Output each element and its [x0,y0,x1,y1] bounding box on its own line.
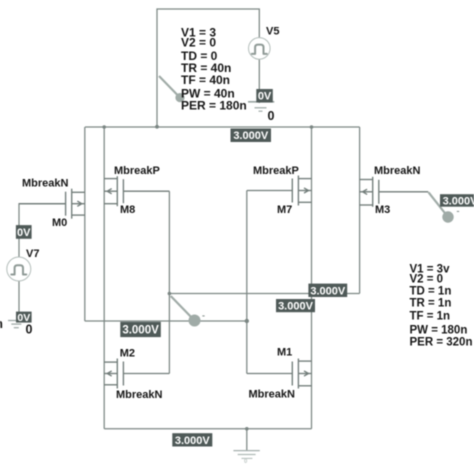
svg-text:M8: M8 [120,204,135,216]
svg-text:V7: V7 [26,248,39,260]
junction: node A / horizontal net [168,292,172,296]
svg-text:MbreakP: MbreakP [114,165,160,177]
svg-text:TF = 40n: TF = 40n [181,73,230,87]
svg-text:3.000V: 3.000V [310,285,346,297]
ground 0 at bottom rail [233,450,259,452]
ground 0 below V7 [8,321,25,328]
svg-text:MbreakP: MbreakP [253,165,299,177]
bias label 0V at V5 [256,89,273,103]
svg-text:MbreakN: MbreakN [116,389,163,401]
svg-text:M1: M1 [277,347,292,359]
svg-text:3.000V: 3.000V [175,435,211,447]
svg-text:0V: 0V [258,91,272,103]
svg-text:PW = 180n: PW = 180n [410,324,468,336]
transistor M8 (MbreakP) [104,176,169,206]
wire: bottom rail [104,428,311,430]
svg-text:MbreakN: MbreakN [249,389,296,401]
voltage source V5 (VPULSE) [248,38,270,60]
wire: horizontal net from node A to M3 source [169,293,359,295]
svg-text:3.000V: 3.000V [122,325,159,337]
svg-text:PER = 180n: PER = 180n [181,99,247,113]
svg-text:M0: M0 [52,217,67,229]
bias label 3.000V right of node [308,284,347,298]
V5 VPULSE parameter list [181,26,247,113]
svg-text:TR = 1n: TR = 1n [410,297,452,309]
bias label 0V at V7 top [16,225,32,239]
svg-text:M3: M3 [375,204,390,216]
junction: rail / M7 drain [310,125,314,129]
junction: rail / V5 loop [155,125,159,129]
probe marker on V5 net [159,76,185,102]
V7 VPULSE parameter list [410,263,473,348]
svg-text:0: 0 [244,459,248,465]
svg-text:V2 = 0: V2 = 0 [181,36,216,50]
wire: right outer column (rail to M3, M3 source down) [359,127,361,294]
wire: ground stub at bottom rail [246,429,248,451]
svg-text:-: - [457,206,460,216]
svg-text:0: 0 [268,109,275,123]
wire: left outer column (M0 drain to rail, source down) [84,127,86,321]
svg-text:M7: M7 [277,204,292,216]
transistor M0 (MbreakN access, left) [19,189,85,219]
probe marker on M3 gate net [429,192,454,222]
svg-text:n: n [0,316,3,331]
svg-text:0: 0 [26,323,33,337]
junction: bottom rail / ground [245,427,249,431]
svg-text:V5: V5 [266,26,279,38]
transistor M2 (MbreakN) [104,359,169,389]
bias label 0V at V7 bottom [16,312,32,324]
bias label 3.000V left net [120,322,161,337]
transistor M1 (MbreakN) [247,359,312,389]
junction: node B / M0 source net [245,319,249,323]
bias label 3.000V below node [276,299,315,313]
svg-text:3.000V: 3.000V [443,195,474,207]
svg-text:M2: M2 [120,348,135,360]
wire: left inner column M8/M2 [103,127,105,429]
svg-text:PER = 320n: PER = 320n [410,336,473,348]
svg-text:TD = 1n: TD = 1n [410,285,452,297]
svg-text:0V: 0V [17,227,31,239]
transistor M3 (MbreakN access, right) [360,177,429,207]
wire: right inner column M7/M1 [311,127,313,429]
wire: VDD top rail [85,126,360,128]
svg-text:3.000V: 3.000V [233,130,269,142]
svg-text:MbreakN: MbreakN [22,178,69,190]
voltage source V7 (VPULSE) [7,257,31,281]
probe marker on node A net [171,296,201,327]
svg-text:MbreakN: MbreakN [374,165,421,177]
ground 0 below V5 [248,101,274,103]
bias label 3.000V bottom rail [172,433,212,447]
bias label 3.000V top rail [231,129,272,143]
svg-text:-: - [202,311,205,321]
junction: rail / M8 drain [102,125,106,129]
wire: node A vertical (M8 gate to M2 gate) [168,191,170,373]
wire: node B vertical (M7 gate to M1 gate) [246,191,248,374]
bias label 3.000V right edge (clipped) [440,194,474,207]
wire: V5 supply loop from top rail up-over to V5 and down to ground [157,9,259,127]
svg-text:V2 = 0: V2 = 0 [410,273,444,285]
svg-text:TF = 1n: TF = 1n [410,310,451,322]
wire: horizontal net from M0 source to node B [85,320,247,322]
wire: M0 gate to V7 source [19,204,66,312]
transistor M7 (MbreakP) [247,176,312,206]
svg-text:3.000V: 3.000V [278,301,314,313]
